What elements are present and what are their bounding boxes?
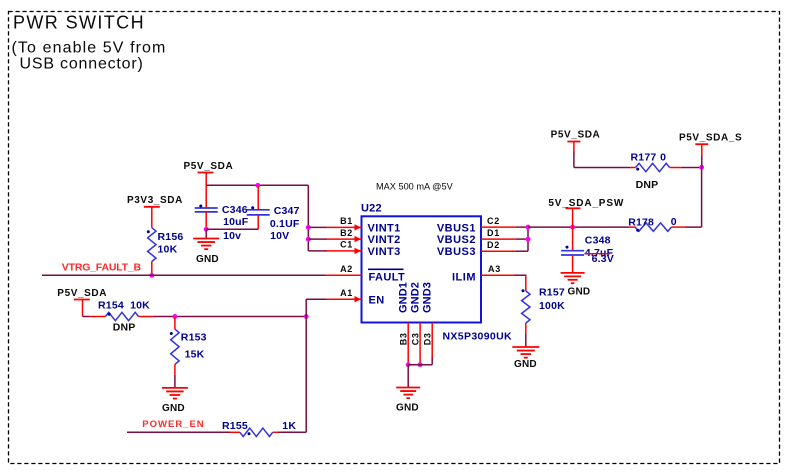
junction VBUS-D1 bbox=[526, 237, 531, 242]
wire C348 bottom stem bbox=[572, 255, 574, 273]
svg-text:R177: R177 bbox=[631, 152, 657, 164]
pin D3 stub bbox=[431, 323, 433, 358]
svg-text:0.1UF: 0.1UF bbox=[270, 218, 300, 230]
svg-text:GND: GND bbox=[396, 402, 419, 413]
refdes R153 bbox=[181, 332, 207, 344]
pin B1 stub with arrow bbox=[326, 224, 362, 230]
svg-text:R157: R157 bbox=[539, 287, 565, 299]
net label P5V_SDA (lower left) bbox=[57, 288, 107, 299]
svg-text:DNP: DNP bbox=[636, 179, 659, 191]
net label 5V_SDA_PSW bbox=[548, 198, 624, 209]
wire gnd stem C346 bbox=[205, 229, 207, 238]
svg-text:P5V_SDA_S: P5V_SDA_S bbox=[679, 133, 742, 144]
refdes C348 bbox=[585, 235, 611, 247]
ground under R157 bbox=[512, 347, 539, 358]
refdes R156 bbox=[158, 231, 184, 243]
pin number C3 bbox=[411, 332, 421, 345]
net label POWER_EN bbox=[142, 419, 204, 430]
wire caps gnd link bbox=[206, 228, 258, 230]
svg-text:P3V3_SDA: P3V3_SDA bbox=[127, 195, 183, 206]
refdes U22 bbox=[361, 203, 382, 215]
pin number C1 bbox=[340, 240, 353, 250]
net label VTRG_FAULT_B bbox=[62, 262, 142, 274]
wire S node down bbox=[701, 167, 703, 227]
label GND under C348 bbox=[568, 287, 591, 298]
svg-text:R156: R156 bbox=[158, 231, 184, 243]
svg-text:0: 0 bbox=[660, 152, 666, 164]
subtitle line 1 bbox=[12, 40, 167, 57]
label GND under U22 bbox=[396, 402, 419, 413]
wire EN node up bbox=[305, 299, 307, 316]
svg-text:10V: 10V bbox=[270, 230, 289, 242]
refdes R177 bbox=[631, 152, 657, 164]
pin number D1 bbox=[487, 228, 500, 238]
wire R156 bottom stub bbox=[151, 262, 153, 276]
value 0.1UF bbox=[270, 218, 300, 230]
label DNP R154 bbox=[113, 321, 136, 333]
wire R178 to S node bbox=[685, 226, 702, 228]
refdes R155 bbox=[222, 420, 248, 432]
pin name VBUS2 bbox=[437, 234, 476, 246]
pin C2 stub bbox=[481, 226, 516, 228]
net label P5V_SDA (top right) bbox=[551, 130, 601, 141]
svg-text:C2: C2 bbox=[487, 216, 500, 226]
wire D2 elbow bbox=[516, 250, 528, 252]
label DNP R177 bbox=[636, 179, 659, 191]
svg-text:GND: GND bbox=[196, 254, 219, 265]
annotation MAX 500 mA @5V bbox=[376, 182, 454, 192]
svg-text:VBUS1: VBUS1 bbox=[437, 222, 476, 234]
wire D3 elbow bbox=[431, 357, 433, 365]
svg-text:VBUS2: VBUS2 bbox=[437, 234, 476, 246]
capacitor C346 bbox=[195, 205, 218, 212]
junction rail-B1 bbox=[306, 225, 311, 230]
svg-text:P5V_SDA: P5V_SDA bbox=[184, 161, 234, 172]
ground under C346 bbox=[193, 239, 219, 250]
value 4.7uF bbox=[585, 247, 614, 259]
resistor R155 bbox=[240, 428, 273, 436]
svg-text:10uF: 10uF bbox=[223, 216, 249, 228]
svg-text:D2: D2 bbox=[487, 240, 500, 250]
wire VTRG_FAULT_B bbox=[42, 274, 326, 276]
svg-text:R154: R154 bbox=[98, 299, 124, 311]
wire top rail bbox=[206, 184, 308, 186]
svg-text:POWER_EN: POWER_EN bbox=[142, 419, 204, 430]
svg-text:10K: 10K bbox=[158, 244, 178, 256]
wire C347 bottom stem bbox=[257, 215, 259, 229]
svg-text:10v: 10v bbox=[223, 230, 241, 242]
svg-text:A3: A3 bbox=[488, 264, 501, 274]
value 10K R156 bbox=[158, 244, 178, 256]
refdes R154 bbox=[98, 299, 124, 311]
wire R177 left stub bbox=[630, 167, 636, 169]
wire rail to B2 bbox=[308, 238, 326, 240]
pin number A2 bbox=[340, 264, 353, 274]
svg-text:R155: R155 bbox=[222, 420, 248, 432]
refdes C347 bbox=[274, 205, 300, 217]
svg-text:(To enable 5V from: (To enable 5V from bbox=[12, 40, 167, 57]
wire R154 to node bbox=[153, 316, 306, 318]
resistor R156 bbox=[147, 228, 156, 262]
wire rail down to VINT pins bbox=[307, 185, 309, 251]
value 10v bbox=[223, 230, 241, 242]
IC U22 body (load switch) bbox=[362, 216, 482, 322]
wire P5V_SDA to R177 bbox=[574, 167, 630, 169]
pin A3 stub bbox=[481, 274, 515, 276]
svg-text:VINT1: VINT1 bbox=[368, 222, 401, 234]
net label P5V_SDA_S bbox=[679, 133, 742, 144]
junction on top rail bbox=[255, 183, 260, 188]
svg-text:A2: A2 bbox=[340, 264, 353, 274]
wire R155 right stub bbox=[273, 431, 279, 433]
wire EN node vertical bbox=[305, 317, 307, 433]
svg-text:10K: 10K bbox=[130, 299, 150, 311]
wire A3 elbow bbox=[515, 275, 527, 291]
value 10V bbox=[270, 230, 289, 242]
junction C346-C347 gnd bbox=[204, 227, 209, 232]
svg-text:P5V_SDA: P5V_SDA bbox=[57, 288, 107, 299]
svg-text:0: 0 bbox=[671, 216, 677, 228]
wire POWER_EN bbox=[127, 431, 230, 433]
label GND under R157 bbox=[514, 359, 537, 370]
value 0 R178 bbox=[671, 216, 677, 228]
pin number D2 bbox=[487, 240, 500, 250]
wire C346 bottom stem bbox=[205, 212, 207, 229]
svg-text:GND: GND bbox=[514, 359, 537, 370]
net label P3V3_SDA bbox=[127, 195, 183, 206]
pin number A3 bbox=[488, 264, 501, 274]
svg-text:100K: 100K bbox=[539, 300, 565, 312]
label GND under C346 bbox=[196, 254, 219, 265]
junction rail-B2 bbox=[306, 237, 311, 242]
svg-text:MAX 500 mA @5V: MAX 500 mA @5V bbox=[376, 182, 454, 192]
strike mark on 4.7uF bbox=[584, 253, 610, 255]
wire R153 gnd stem bbox=[174, 375, 176, 388]
ground under C348 bbox=[561, 273, 585, 283]
svg-text:1K: 1K bbox=[282, 420, 296, 432]
pin name VINT3 bbox=[368, 246, 401, 258]
wire VBUS rail to PSW bbox=[528, 226, 629, 228]
junction EN node bbox=[304, 314, 309, 319]
resistor R157 bbox=[522, 289, 531, 323]
pin number A1 bbox=[340, 288, 353, 298]
svg-text:D3: D3 bbox=[423, 332, 433, 345]
value NX5P3090UK bbox=[443, 331, 513, 343]
wire C347 top stem bbox=[257, 185, 259, 209]
pin A2 stub bbox=[326, 274, 362, 276]
svg-text:5V_SDA_PSW: 5V_SDA_PSW bbox=[548, 198, 624, 209]
svg-text:P5V_SDA: P5V_SDA bbox=[551, 130, 601, 141]
svg-text:R178: R178 bbox=[628, 216, 654, 228]
pin name GND1 bbox=[398, 282, 410, 313]
wire R177 to S node bbox=[682, 167, 702, 169]
pin number C2 bbox=[487, 216, 500, 226]
wire rail to C1 bbox=[308, 250, 326, 252]
svg-text:C348: C348 bbox=[585, 235, 611, 247]
value 0 R177 bbox=[660, 152, 666, 164]
value 6.3V bbox=[592, 253, 614, 265]
svg-text:B2: B2 bbox=[340, 228, 353, 238]
wire gnd link B3-D3 bbox=[408, 364, 432, 366]
svg-text:USB connector): USB connector) bbox=[20, 55, 144, 72]
pin name VBUS1 bbox=[437, 222, 476, 234]
pin name GND2 bbox=[410, 282, 422, 313]
subtitle line 2 bbox=[20, 55, 144, 72]
pin name FAULT with overbar bbox=[368, 269, 405, 283]
wire EN to pin A1 bbox=[306, 298, 326, 300]
junction R156-fault bbox=[149, 273, 154, 278]
pin name VINT1 bbox=[368, 222, 401, 234]
junction P5V_SDA_S bbox=[699, 165, 704, 170]
pin number B3 bbox=[399, 332, 409, 345]
value 15K bbox=[185, 349, 205, 361]
svg-text:U22: U22 bbox=[361, 203, 382, 215]
wire R157 bottom stub bbox=[525, 323, 527, 333]
pin B2 stub with arrow bbox=[326, 236, 362, 242]
svg-text:15K: 15K bbox=[185, 349, 205, 361]
junction R153 node bbox=[172, 314, 177, 319]
svg-text:GND3: GND3 bbox=[422, 282, 434, 313]
svg-text:VINT2: VINT2 bbox=[368, 234, 401, 246]
ground under U22 bbox=[396, 388, 420, 399]
capacitor C347 bbox=[247, 206, 270, 215]
svg-text:A1: A1 bbox=[340, 288, 353, 298]
svg-text:B1: B1 bbox=[340, 216, 353, 226]
pin D2 stub bbox=[481, 250, 516, 252]
wire D1 link bbox=[516, 238, 528, 240]
junction 5V_SDA_PSW bbox=[570, 225, 575, 230]
svg-text:C346: C346 bbox=[222, 204, 248, 216]
wire R153 top stem bbox=[174, 317, 176, 330]
wire C348 top stem bbox=[572, 227, 574, 251]
value 100K bbox=[539, 300, 565, 312]
resistor R178 bbox=[635, 223, 671, 232]
junction VBUS-C2 bbox=[526, 225, 531, 230]
svg-text:D1: D1 bbox=[487, 228, 500, 238]
svg-text:R153: R153 bbox=[181, 332, 207, 344]
label GND under R153 bbox=[162, 403, 185, 414]
wire rail to B1 bbox=[308, 226, 326, 228]
pin A1 stub with arrow bbox=[326, 296, 362, 302]
resistor R154 bbox=[105, 312, 138, 320]
svg-text:EN: EN bbox=[369, 295, 385, 307]
pin number B1 bbox=[340, 216, 353, 226]
wire R155 left stub bbox=[230, 431, 240, 433]
title PWR SWITCH bbox=[13, 12, 145, 32]
refdes R178 bbox=[628, 216, 654, 228]
power tap 5V_SDA_PSW bbox=[566, 208, 581, 227]
pin D1 stub bbox=[481, 238, 516, 240]
svg-text:6.3V: 6.3V bbox=[592, 253, 614, 265]
wire R153 bottom stub bbox=[174, 364, 176, 375]
wire gnd stem U22 bbox=[407, 365, 409, 388]
value 10uF bbox=[223, 216, 249, 228]
junction B3 gnd bbox=[406, 362, 411, 367]
svg-text:GND: GND bbox=[162, 403, 185, 414]
svg-text:GND: GND bbox=[568, 287, 591, 298]
resistor R177 bbox=[636, 163, 670, 171]
pin name ILIM bbox=[452, 271, 476, 283]
junction C3 gnd bbox=[418, 362, 423, 367]
svg-text:DNP: DNP bbox=[113, 321, 136, 333]
svg-text:NX5P3090UK: NX5P3090UK bbox=[443, 331, 513, 343]
wire R177 right stub bbox=[670, 167, 682, 169]
refdes R157 bbox=[539, 287, 565, 299]
power symbol P5V_SDA (over C346) bbox=[198, 173, 214, 208]
wire R178 right stub bbox=[671, 226, 685, 228]
ground under R153 bbox=[162, 388, 188, 399]
svg-text:FAULT: FAULT bbox=[369, 271, 406, 283]
value 10K R154 bbox=[130, 299, 150, 311]
pin name VINT2 bbox=[368, 234, 401, 246]
pin C1 stub with arrow bbox=[326, 248, 362, 254]
wire C2 link bbox=[516, 226, 528, 228]
power symbol P3V3_SDA bbox=[144, 207, 160, 228]
pin number B2 bbox=[340, 228, 353, 238]
pin name GND3 bbox=[422, 282, 434, 313]
power symbol P5V_SDA top right bbox=[567, 142, 580, 168]
pin number D3 bbox=[423, 332, 433, 345]
svg-text:VTRG_FAULT_B: VTRG_FAULT_B bbox=[62, 262, 142, 274]
svg-text:VBUS3: VBUS3 bbox=[437, 246, 476, 258]
capacitor C348 bbox=[561, 246, 584, 255]
svg-text:GND1: GND1 bbox=[398, 282, 410, 313]
wire VBUS collect vertical bbox=[527, 227, 529, 251]
pin name EN bbox=[369, 295, 385, 307]
refdes C346 bbox=[222, 204, 248, 216]
svg-text:C3: C3 bbox=[411, 332, 421, 345]
net label P5V_SDA bbox=[184, 161, 234, 172]
pin name VBUS3 bbox=[437, 246, 476, 258]
svg-text:C347: C347 bbox=[274, 205, 300, 217]
wire R178 left stub bbox=[629, 226, 636, 228]
svg-text:ILIM: ILIM bbox=[452, 271, 476, 283]
svg-text:C1: C1 bbox=[340, 240, 353, 250]
svg-text:B3: B3 bbox=[399, 332, 409, 345]
value 1K bbox=[282, 420, 296, 432]
pin B3 stub bbox=[407, 323, 409, 365]
svg-text:VINT3: VINT3 bbox=[368, 246, 401, 258]
pin C3 stub bbox=[419, 323, 421, 365]
resistor R153 bbox=[170, 329, 179, 364]
power symbol P5V_SDA_S bbox=[695, 144, 708, 167]
wire R155 to EN node bbox=[279, 431, 307, 433]
wire R154 right stub bbox=[139, 316, 154, 318]
svg-text:GND2: GND2 bbox=[410, 282, 422, 313]
wire R157 gnd stem bbox=[525, 333, 527, 347]
svg-text:PWR SWITCH: PWR SWITCH bbox=[13, 12, 145, 32]
power symbol P5V_SDA lower bbox=[74, 300, 106, 317]
